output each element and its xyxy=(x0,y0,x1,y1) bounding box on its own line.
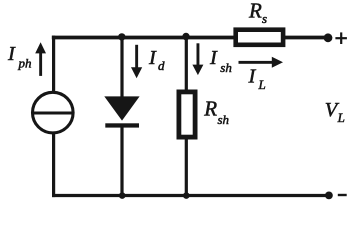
junction dot bottom Rsh node xyxy=(183,192,190,199)
svg-text:R: R xyxy=(203,97,217,121)
current arrow Ish (downward) xyxy=(192,43,203,75)
label Rs xyxy=(248,0,267,26)
svg-text:I: I xyxy=(148,47,157,69)
svg-text:I: I xyxy=(248,65,257,87)
wire bottom (node B: from left branch to - terminal) xyxy=(52,194,329,197)
resistor Rs (horizontal box) xyxy=(236,30,283,45)
svg-text:sh: sh xyxy=(220,60,232,75)
svg-text:L: L xyxy=(258,77,266,92)
label Iph xyxy=(7,43,32,71)
junction dot top diode node xyxy=(118,33,125,40)
svg-text:L: L xyxy=(337,110,345,125)
label Id xyxy=(148,47,165,73)
wire diode branch upper xyxy=(120,36,123,98)
svg-text:d: d xyxy=(158,58,165,73)
wire left vertical lower xyxy=(52,134,55,198)
svg-text:s: s xyxy=(262,11,267,26)
svg-text:R: R xyxy=(248,0,262,23)
label Rsh xyxy=(203,97,229,127)
label IL xyxy=(248,65,266,92)
junction dot top Rsh node xyxy=(182,33,189,40)
wire diode branch lower xyxy=(120,126,123,196)
svg-text:sh: sh xyxy=(218,112,230,127)
svg-text:I: I xyxy=(209,47,218,69)
terminal + (positive output) xyxy=(324,32,347,44)
terminal - (negative output) xyxy=(325,192,347,200)
svg-text:I: I xyxy=(7,43,16,65)
current arrow IL (rightward) xyxy=(239,57,284,68)
current source Iph (circle with horizontal bar) xyxy=(33,92,74,133)
diode D (anode top, cathode bar bottom) xyxy=(104,96,139,127)
wire top (node A: from left branch to Rs) xyxy=(52,36,235,40)
svg-text:ph: ph xyxy=(18,56,32,71)
wire left vertical upper xyxy=(52,36,55,93)
resistor Rsh (vertical box) xyxy=(179,92,195,137)
wire Rsh branch upper xyxy=(185,36,188,92)
wire top right (Rs to + terminal) xyxy=(285,36,329,40)
wire Rsh branch lower xyxy=(185,138,188,196)
current arrow Id (downward) xyxy=(131,45,142,79)
label VL (output voltage) xyxy=(325,99,345,125)
junction dot bottom diode node xyxy=(119,192,126,199)
current arrow Iph (upward) xyxy=(35,42,46,76)
label Ish xyxy=(209,47,232,75)
